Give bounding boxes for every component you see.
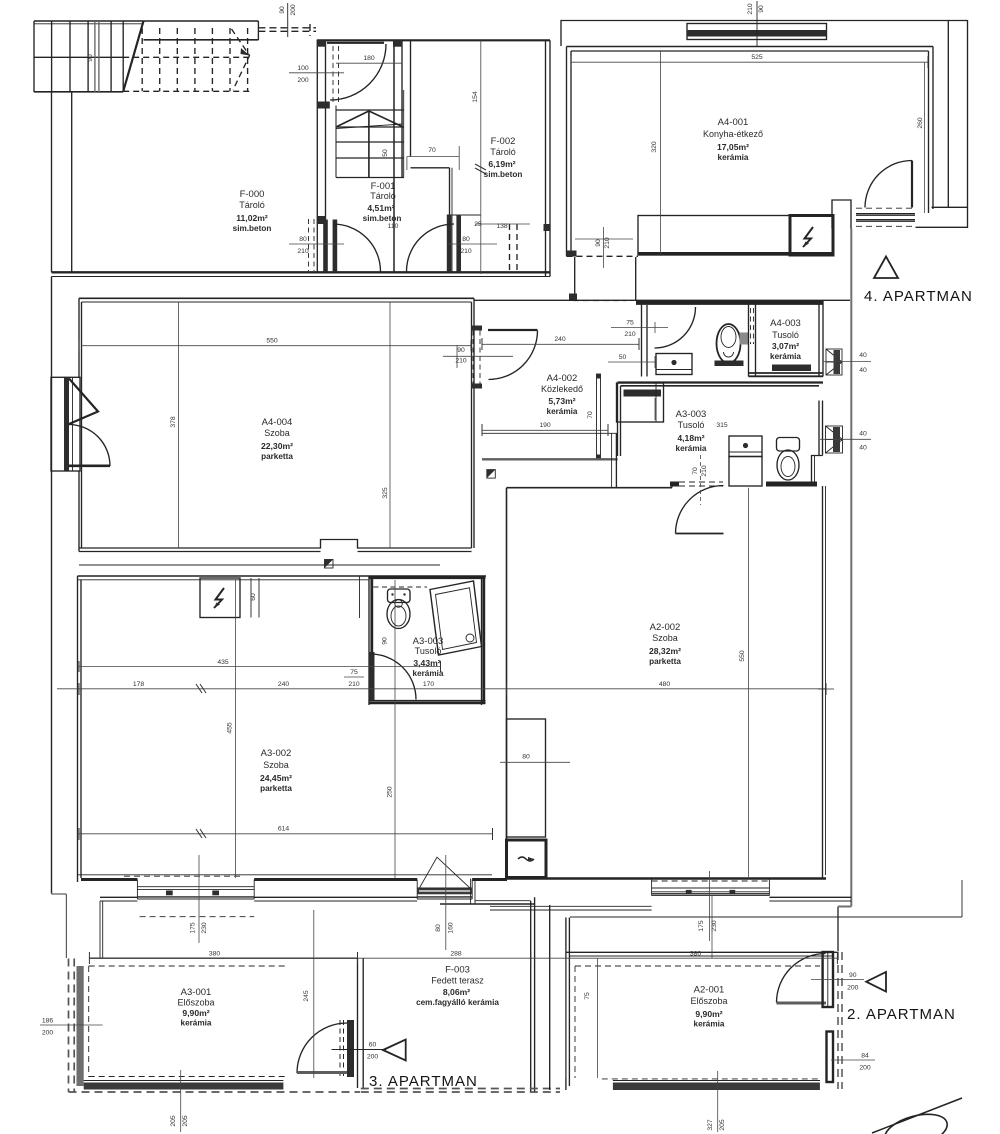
svg-text:parketta: parketta (649, 657, 681, 666)
svg-text:178: 178 (133, 681, 145, 688)
A3-003 upper right wall (818, 401, 820, 456)
dashed opening below F-002 (510, 224, 518, 272)
F-003 terrace (530, 901, 532, 1092)
svg-text:cem.fagyálló kerámia: cem.fagyálló kerámia (416, 998, 499, 1007)
svg-text:F-003: F-003 (445, 965, 470, 976)
opening A4-004 to corridor (471, 326, 482, 331)
toilet A4-002 (717, 324, 741, 363)
svg-text:80: 80 (522, 754, 530, 761)
svg-text:175: 175 (698, 920, 705, 932)
shower strip A4-003 (772, 365, 811, 372)
kitchen dashed bottom left (567, 256, 639, 300)
A2-001 door top right (777, 1002, 827, 1005)
wall A4-004 right continues down (471, 389, 473, 549)
A3-003 upper shower room walls (618, 381, 824, 383)
kitchen door lower right (911, 161, 913, 208)
svg-text:A2-001: A2-001 (694, 985, 725, 996)
svg-text:A4-004: A4-004 (262, 417, 293, 428)
exterior left wall F-000 (51, 92, 53, 272)
svg-text:kerámia: kerámia (718, 153, 749, 162)
svg-text:kerámia: kerámia (181, 1019, 212, 1028)
vent box A2-002 (507, 840, 547, 878)
svg-text:Közlekedő: Közlekedő (541, 384, 583, 394)
svg-text:325: 325 (382, 487, 389, 499)
A3-001 room (69, 959, 361, 1093)
svg-text:Tároló: Tároló (490, 147, 516, 157)
svg-text:154: 154 (472, 91, 479, 103)
svg-text:3. APARTMAN: 3. APARTMAN (369, 1073, 478, 1090)
triangle 2 apartman (866, 972, 886, 992)
svg-text:60: 60 (250, 593, 257, 601)
svg-text:320: 320 (651, 141, 658, 153)
section mark bottom right (872, 1098, 962, 1133)
svg-text:210: 210 (455, 358, 467, 365)
wall band between A4-004 and A3-002 (79, 564, 440, 566)
svg-text:435: 435 (217, 659, 229, 666)
svg-text:sim.beton: sim.beton (484, 170, 523, 179)
svg-text:40: 40 (859, 431, 867, 438)
svg-text:180: 180 (363, 55, 375, 62)
svg-text:A4-001: A4-001 (718, 117, 749, 128)
svg-text:245: 245 (303, 990, 310, 1002)
svg-text:11,02m²: 11,02m² (236, 213, 268, 223)
svg-text:200: 200 (859, 1065, 871, 1072)
corridor bottom wall (482, 432, 618, 434)
A2-001 room (549, 905, 551, 1090)
svg-text:3,07m²: 3,07m² (772, 341, 799, 351)
svg-text:9,90m²: 9,90m² (182, 1008, 209, 1018)
svg-text:550: 550 (266, 338, 278, 345)
svg-text:Tusoló: Tusoló (678, 420, 705, 430)
svg-text:kerámia: kerámia (547, 407, 578, 416)
wall between corridor zone and A2-002 top (611, 433, 613, 487)
svg-text:9,90m²: 9,90m² (695, 1009, 722, 1019)
svg-text:5,73m²: 5,73m² (548, 396, 575, 406)
svg-text:70: 70 (692, 467, 699, 475)
dimension ticks (79, 56, 928, 964)
svg-text:F-002: F-002 (491, 136, 516, 147)
corridor top wall y300 (474, 299, 850, 301)
svg-text:210: 210 (747, 3, 754, 15)
stair direction arrowhead (241, 48, 250, 56)
F-001 top door (327, 42, 384, 44)
F-001 right wall (393, 40, 395, 272)
dim tick 90/200 at top (287, 3, 289, 37)
svg-text:380: 380 (690, 951, 702, 958)
svg-text:210: 210 (604, 237, 611, 249)
A4-003 right wall (818, 301, 820, 377)
kitchen walls (566, 47, 568, 257)
svg-text:288: 288 (450, 951, 462, 958)
svg-text:6,19m²: 6,19m² (488, 159, 515, 169)
svg-text:455: 455 (227, 722, 234, 734)
party wall right (grey) (838, 229, 851, 952)
svg-text:A2-002: A2-002 (650, 622, 681, 633)
A3-003 upper toilet (777, 438, 800, 452)
svg-text:90: 90 (849, 972, 857, 979)
svg-text:240: 240 (278, 681, 290, 688)
wall between WC and A4-003 (748, 301, 750, 377)
svg-text:315: 315 (716, 422, 728, 429)
A3-002 bottom wall segments (78, 874, 493, 876)
svg-text:parketta: parketta (261, 452, 293, 461)
svg-text:sim.beton: sim.beton (363, 214, 402, 223)
svg-text:90: 90 (758, 5, 765, 13)
bath tub A3-003 lower (430, 581, 482, 655)
svg-text:170: 170 (423, 681, 435, 688)
svg-text:Tároló: Tároló (370, 191, 396, 201)
svg-text:90: 90 (457, 347, 465, 354)
svg-text:200: 200 (290, 4, 297, 16)
svg-text:378: 378 (170, 416, 177, 428)
svg-text:210: 210 (460, 248, 472, 255)
A3-003 upper bottom wall with door opening (670, 482, 679, 487)
toilet A3-003 lower (388, 589, 411, 603)
svg-text:90: 90 (382, 637, 389, 645)
A3-003 upper fixtures: washbasin (729, 436, 762, 457)
svg-text:230: 230 (201, 922, 208, 934)
exterior left wall lower (51, 277, 53, 894)
door A3-001/terrace (347, 1020, 354, 1077)
svg-text:2. APARTMAN: 2. APARTMAN (847, 1006, 956, 1023)
svg-text:25: 25 (474, 221, 482, 228)
svg-text:kerámia: kerámia (770, 352, 801, 361)
svg-text:Szoba: Szoba (263, 760, 289, 770)
corridor door (488, 329, 538, 331)
svg-text:F-000: F-000 (240, 189, 265, 200)
svg-text:138: 138 (496, 223, 508, 230)
svg-text:60: 60 (369, 1042, 377, 1049)
svg-text:210: 210 (624, 331, 636, 338)
svg-text:190: 190 (539, 422, 551, 429)
bottom double doors of F-001 area (323, 220, 328, 273)
A3-002 room outline (77, 576, 79, 882)
triangle 3 apartman (383, 1040, 406, 1061)
svg-text:40: 40 (859, 367, 867, 374)
washbasin A4-002 (656, 354, 692, 375)
svg-text:110: 110 (388, 223, 399, 230)
room label texts (177, 117, 801, 1029)
svg-text:186: 186 (42, 1018, 54, 1025)
dimension number texts (42, 54, 871, 1072)
shower tray under washbasin (729, 457, 762, 487)
svg-text:260: 260 (917, 117, 924, 129)
svg-text:200: 200 (367, 1054, 379, 1061)
bathroom block left wall (641, 301, 643, 377)
svg-text:A4-003: A4-003 (770, 318, 801, 329)
svg-text:200: 200 (297, 77, 309, 84)
svg-text:480: 480 (659, 681, 671, 688)
svg-text:210: 210 (348, 681, 360, 688)
svg-text:Konyha-étkező: Konyha-étkező (703, 129, 763, 139)
svg-text:A4-002: A4-002 (547, 373, 578, 384)
corridor partition small (597, 374, 601, 459)
svg-text:Előszoba: Előszoba (690, 996, 727, 1006)
radiator tall box A2-002 (507, 719, 546, 837)
svg-text:200: 200 (42, 1030, 54, 1037)
svg-text:70: 70 (587, 411, 594, 419)
bottom wall of storage block (52, 271, 551, 273)
svg-text:205: 205 (182, 1115, 189, 1127)
left stub wall of shower block (671, 482, 673, 488)
F-002 left wall with step (410, 40, 412, 156)
svg-text:Tusoló: Tusoló (772, 330, 799, 340)
corner markers black/white squares (325, 470, 496, 568)
svg-text:Szoba: Szoba (652, 633, 678, 643)
svg-text:525: 525 (751, 54, 763, 61)
svg-text:A3-002: A3-002 (261, 748, 292, 759)
svg-text:sim.beton: sim.beton (233, 224, 272, 233)
svg-text:230: 230 (711, 920, 718, 932)
A3-001 right wall to terrace (357, 958, 359, 1088)
svg-text:22,30m²: 22,30m² (261, 441, 293, 451)
svg-text:614: 614 (278, 826, 290, 833)
svg-text:A3-003: A3-003 (676, 409, 707, 420)
A2-001 bottom dark wall (613, 1083, 820, 1091)
band wall verticals above A3-001 (99, 901, 101, 958)
svg-text:327: 327 (707, 1119, 714, 1131)
upper stair flight in F-001 (336, 90, 404, 178)
svg-text:40: 40 (859, 352, 867, 359)
svg-text:75: 75 (350, 669, 358, 676)
svg-text:80: 80 (435, 924, 442, 932)
svg-text:210: 210 (297, 248, 309, 255)
svg-text:160: 160 (448, 922, 455, 934)
svg-text:75: 75 (584, 992, 591, 1000)
door from A2-002 to shower room (676, 533, 724, 535)
bathroom block top thick (636, 301, 823, 305)
svg-text:205: 205 (170, 1115, 177, 1127)
svg-text:24,45m²: 24,45m² (260, 773, 292, 783)
staircase dashed flight (123, 28, 250, 91)
svg-text:200: 200 (847, 985, 859, 992)
A3-001 bottom dark wall (84, 1083, 284, 1090)
svg-text:80: 80 (462, 236, 470, 243)
svg-text:4,18m²: 4,18m² (677, 433, 704, 443)
svg-text:175: 175 (190, 922, 197, 934)
svg-text:kerámia: kerámia (694, 1020, 725, 1029)
A3-002 window left (137, 880, 254, 900)
svg-text:8,06m²: 8,06m² (443, 987, 470, 997)
svg-text:Előszoba: Előszoba (177, 998, 214, 1008)
A3-002 terrace door right (417, 880, 472, 900)
kitchen top window (687, 24, 827, 40)
svg-text:90: 90 (279, 6, 286, 14)
svg-text:80: 80 (299, 236, 307, 243)
svg-text:Szoba: Szoba (264, 428, 290, 438)
svg-text:550: 550 (739, 650, 746, 662)
svg-text:Tároló: Tároló (239, 200, 265, 210)
svg-text:70: 70 (428, 147, 436, 154)
A4-004 room walls (78, 298, 80, 551)
svg-text:4,51m²: 4,51m² (367, 203, 394, 213)
kitchen door sill (856, 214, 915, 222)
svg-text:84: 84 (861, 1053, 869, 1060)
svg-text:205: 205 (719, 1119, 726, 1131)
svg-text:kerámia: kerámia (413, 669, 444, 678)
WC nook door (A4-002) (655, 307, 696, 348)
svg-text:90: 90 (595, 239, 602, 247)
svg-text:40: 40 (859, 445, 867, 452)
A2-002 window bottom (652, 879, 770, 896)
french window on left wall of A4-004 (51, 377, 80, 471)
bathroom door A3-003 lower (369, 652, 375, 700)
svg-text:50: 50 (382, 149, 389, 157)
svg-text:210: 210 (701, 465, 708, 477)
A4-004 bottom wall with notch (79, 540, 472, 549)
electrical cabinet A3-002 (200, 578, 240, 618)
svg-text:17,05m²: 17,05m² (717, 142, 749, 152)
F-001 left wall (316, 40, 318, 272)
A2-001 right wall windows dark (823, 952, 833, 1007)
A4-003 bottom wall (749, 372, 824, 374)
svg-text:380: 380 (209, 951, 221, 958)
A2-002 room outline (506, 488, 508, 879)
band walls between floors (100, 896, 137, 898)
svg-text:Tusoló: Tusoló (415, 646, 442, 656)
svg-text:4. APARTMAN: 4. APARTMAN (864, 288, 973, 305)
electric stove symbol (803, 227, 813, 247)
svg-text:parketta: parketta (260, 784, 292, 793)
svg-text:28,32m²: 28,32m² (649, 646, 681, 656)
top wall of F-001/F-002 (317, 39, 550, 41)
storage block right wall (545, 40, 547, 276)
svg-text:250: 250 (387, 786, 394, 798)
svg-text:Fedett terasz: Fedett terasz (431, 976, 484, 986)
svg-text:50: 50 (619, 354, 627, 361)
pier left of kitchen door (832, 200, 851, 229)
triangle symbol apartment 4 (874, 257, 898, 279)
svg-text:75: 75 (626, 320, 634, 327)
kitchen counter (638, 216, 833, 256)
washing machine box (617, 383, 664, 422)
svg-text:100: 100 (297, 65, 309, 72)
staircase solid flight top-left (34, 21, 258, 92)
svg-text:240: 240 (554, 336, 566, 343)
svg-text:A3-001: A3-001 (181, 987, 212, 998)
dashed wall continuation to kitchen block (258, 24, 316, 36)
kitchen block A4-001 outer boundary (561, 21, 968, 228)
svg-text:90: 90 (87, 54, 94, 62)
A3-003 lower bathroom box (359, 576, 361, 618)
svg-text:kerámia: kerámia (676, 444, 707, 453)
svg-text:3,43m²: 3,43m² (413, 658, 440, 668)
wall section symbols with X right side (826, 349, 843, 453)
